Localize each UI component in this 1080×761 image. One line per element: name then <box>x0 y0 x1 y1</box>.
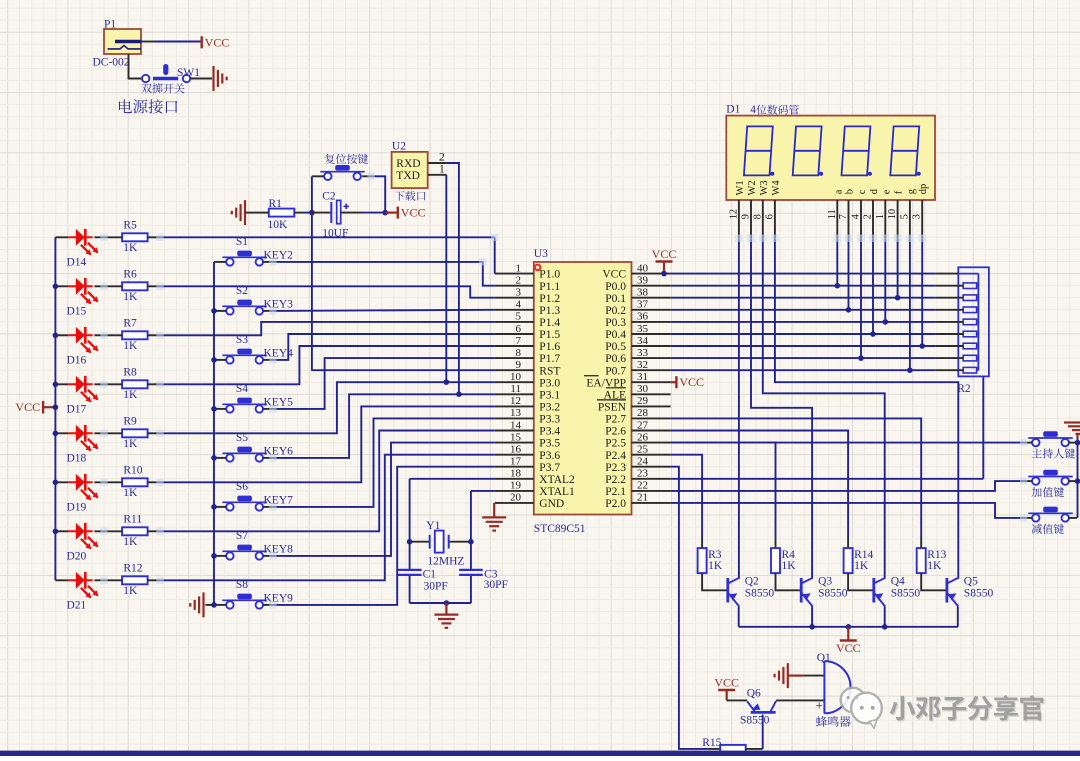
wire S7 net to pin15 <box>273 443 495 556</box>
ground (SW1) <box>214 66 227 91</box>
wire key right stub <box>263 506 273 508</box>
wire W3 to Q4 <box>763 238 885 579</box>
wire key left stub <box>214 408 226 410</box>
svg-text:P2.4: P2.4 <box>605 450 626 462</box>
svg-text:24: 24 <box>637 456 649 468</box>
svg-text:12MHZ: 12MHZ <box>427 555 464 567</box>
svg-text:P1.7: P1.7 <box>539 353 560 365</box>
junction <box>53 382 59 388</box>
junction <box>53 284 59 290</box>
svg-text:25: 25 <box>637 444 649 456</box>
junction <box>211 308 217 314</box>
svg-text:5: 5 <box>516 311 522 323</box>
svg-text:VCC: VCC <box>836 641 861 655</box>
svg-text:18: 18 <box>510 468 522 480</box>
wire stub <box>775 537 777 548</box>
wire VCC row to R2 <box>671 273 936 275</box>
push button S4 <box>222 403 266 405</box>
svg-text:b: b <box>845 189 856 194</box>
svg-text:P1.0: P1.0 <box>539 269 560 281</box>
wire key left stub <box>214 506 226 508</box>
digit 2 <box>793 126 822 175</box>
resistor R14 1K <box>844 548 853 573</box>
junction <box>846 624 852 630</box>
wire key left stub <box>214 457 226 459</box>
svg-text:R9: R9 <box>123 416 137 428</box>
junction <box>382 210 388 216</box>
pin 6 (P1.5) <box>495 333 534 335</box>
label 加值键 <box>1032 487 1064 497</box>
svg-text:33: 33 <box>637 347 649 359</box>
resistor R8 <box>122 380 148 388</box>
push button S2 <box>222 305 266 307</box>
pin 15 (P3.5) <box>495 442 534 444</box>
wire R4 feed from P2 <box>671 443 776 537</box>
pin 1 (U2) <box>428 174 447 176</box>
svg-text:1K: 1K <box>123 340 138 352</box>
LED D16 <box>55 334 68 336</box>
wire LED to R <box>94 236 122 238</box>
svg-text:W3: W3 <box>759 180 770 195</box>
svg-text:26: 26 <box>637 431 649 443</box>
wire W1 to Q2 <box>738 238 740 579</box>
wire D14 net to pin1 <box>160 236 495 238</box>
wire key left stub <box>214 359 226 361</box>
svg-text:40: 40 <box>637 262 649 274</box>
svg-text:1K: 1K <box>123 438 138 450</box>
svg-text:W4: W4 <box>771 180 782 196</box>
wire LED to R <box>94 432 122 434</box>
wire LED to R <box>94 579 122 581</box>
svg-text:S8550: S8550 <box>964 588 994 600</box>
push button S5 <box>222 452 266 454</box>
junction <box>53 529 59 535</box>
pin 12 (P3.2) <box>495 405 534 407</box>
wire stub <box>920 537 922 548</box>
svg-text:RST: RST <box>539 365 560 377</box>
resistor R13 1K <box>917 548 926 573</box>
wire right edge vertical <box>1077 438 1079 518</box>
push button S8 <box>222 599 266 601</box>
wire S2 net to pin4 <box>273 310 495 311</box>
ground (R1) <box>232 200 245 225</box>
svg-text:4: 4 <box>851 213 862 219</box>
resistor R2 element 3 <box>963 307 976 313</box>
svg-text:STC89C51: STC89C51 <box>534 523 586 535</box>
svg-text:D18: D18 <box>67 452 87 464</box>
capacitor C2 10UF <box>331 200 349 223</box>
LED D15 <box>55 285 68 287</box>
svg-text:1K: 1K <box>123 536 138 548</box>
wire LED to R <box>94 285 122 287</box>
wire key right stub <box>263 604 273 606</box>
label 双掷开关 <box>141 83 184 93</box>
power VCC (Q6) <box>718 689 735 691</box>
svg-text:1K: 1K <box>123 585 138 597</box>
svg-text:23: 23 <box>637 468 649 480</box>
wire base <box>921 573 946 590</box>
pin 5 (P1.4) <box>495 321 534 323</box>
label 电源接口 <box>119 99 177 113</box>
svg-text:38: 38 <box>637 287 649 299</box>
svg-text:P0.4: P0.4 <box>605 329 626 341</box>
junction <box>882 624 888 630</box>
wire P2.2 row <box>671 478 984 480</box>
wire D17 net to pin7 <box>160 346 495 384</box>
pin 14 (P3.4) <box>495 430 534 432</box>
svg-text:XTAL2: XTAL2 <box>539 474 575 486</box>
label 减值键 <box>1032 524 1064 534</box>
pin 21 (P2.0) <box>632 502 671 504</box>
svg-text:Q3: Q3 <box>818 576 832 588</box>
watermark wechat logo <box>841 688 882 728</box>
pin 39 (P0.0) <box>632 285 671 287</box>
wire LED to R <box>94 334 122 336</box>
svg-text:1: 1 <box>439 163 445 175</box>
wire segment dp <box>921 238 923 346</box>
IC U3 STC89C51 <box>534 262 632 515</box>
LED D21 <box>55 579 68 581</box>
wire key left stub <box>214 261 226 263</box>
power VCC (LED bus) <box>44 406 56 408</box>
svg-text:DC-002: DC-002 <box>93 57 130 69</box>
svg-text:P0.6: P0.6 <box>605 353 626 365</box>
connector P1 DC-002 <box>104 29 141 54</box>
svg-text:Q5: Q5 <box>964 576 978 588</box>
svg-text:P3.0: P3.0 <box>539 377 560 389</box>
svg-text:P1: P1 <box>104 19 116 31</box>
wire key bus to ground <box>205 604 214 606</box>
pin 1 (P1.0) <box>495 273 534 275</box>
ground (top right) <box>1064 423 1080 434</box>
pin 7 (P1.6) <box>495 345 534 347</box>
digit 3 <box>842 126 871 175</box>
svg-text:9: 9 <box>516 359 522 371</box>
resistor R2 element 2 <box>963 295 976 301</box>
svg-text:P1.6: P1.6 <box>539 341 560 353</box>
junction <box>53 333 59 339</box>
svg-text:10: 10 <box>510 371 522 383</box>
header U2 <box>392 152 428 188</box>
wire R2 to P2.2 vertical <box>982 376 984 478</box>
svg-text:W1: W1 <box>735 180 746 195</box>
label 4位数码管 <box>750 104 799 116</box>
svg-text:1K: 1K <box>123 389 138 401</box>
power VCC (P1) <box>200 36 202 48</box>
svg-text:S8550: S8550 <box>740 714 770 726</box>
svg-text:Q1: Q1 <box>817 652 831 664</box>
push button SP2 (加值键) <box>1028 476 1072 478</box>
svg-text:e: e <box>881 189 892 194</box>
push button SP3 (减值键) <box>1028 512 1072 514</box>
svg-text:1K: 1K <box>708 560 723 572</box>
resistor R7 <box>122 331 148 339</box>
svg-text:12: 12 <box>510 395 521 407</box>
svg-text:+: + <box>816 698 823 713</box>
resistor R5 <box>122 233 148 241</box>
junction <box>907 367 913 373</box>
svg-text:1K: 1K <box>123 487 138 499</box>
junction <box>444 600 450 606</box>
svg-text:8: 8 <box>516 347 522 359</box>
wire emitter bus <box>739 626 958 628</box>
pin 28 (P2.7) <box>632 417 671 419</box>
junction <box>211 357 217 363</box>
wire P2.1 row to key2 <box>671 481 1024 491</box>
svg-text:S8550: S8550 <box>745 588 775 600</box>
push button S3 <box>222 354 266 356</box>
ground (pin20 GND) <box>493 503 495 517</box>
svg-text:KEY2: KEY2 <box>264 250 294 262</box>
wire P0.3 row <box>671 321 936 323</box>
wire emitter <box>811 607 813 627</box>
capacitor C1 30PF <box>398 570 422 575</box>
junction <box>211 406 217 412</box>
resistor R2 element 7 <box>963 355 976 361</box>
svg-text:P3.4: P3.4 <box>539 426 560 438</box>
junction <box>444 379 450 385</box>
junction <box>846 307 852 313</box>
pin 24 (P2.3) <box>632 466 671 468</box>
svg-text:1K: 1K <box>123 242 138 254</box>
svg-text:3: 3 <box>516 287 522 299</box>
svg-text:1: 1 <box>875 214 886 219</box>
svg-text:37: 37 <box>637 299 649 311</box>
svg-text:15: 15 <box>510 431 522 443</box>
junction <box>211 553 217 559</box>
svg-text:S8550: S8550 <box>891 588 921 600</box>
wire S8 net to pin17 <box>273 467 495 605</box>
resistor network R2 <box>958 267 989 376</box>
wire P0.6 row <box>671 357 936 359</box>
junction <box>661 271 667 277</box>
svg-text:1K: 1K <box>123 291 138 303</box>
svg-text:13: 13 <box>510 407 522 419</box>
wire R14 feed from P2 <box>671 431 849 538</box>
svg-text:KEY8: KEY8 <box>264 544 294 556</box>
svg-text:P1.3: P1.3 <box>539 305 560 317</box>
transistor Q4 S8550 <box>872 578 875 603</box>
pin 38 (P0.1) <box>632 297 671 299</box>
svg-text:4: 4 <box>750 104 756 116</box>
svg-text:D14: D14 <box>67 256 87 268</box>
wire RST net to pin9 <box>312 369 495 371</box>
wire R stub <box>148 579 161 581</box>
svg-text:P0.7: P0.7 <box>605 365 626 377</box>
resistor R15 <box>707 748 720 750</box>
junction <box>211 455 217 461</box>
svg-text:34: 34 <box>637 335 649 347</box>
wire stub right <box>1068 517 1077 519</box>
wire XTAL2 rail <box>410 478 495 480</box>
wire XTAL1 rail <box>471 490 495 492</box>
resistor R12 <box>122 576 148 584</box>
svg-text:P3.7: P3.7 <box>539 462 560 474</box>
pin 26 (P2.5) <box>632 442 671 444</box>
svg-text:28: 28 <box>637 407 649 419</box>
pin 20 (GND) <box>495 502 534 504</box>
wire Q6 collector to buzzer <box>776 699 824 701</box>
wire S3 net to pin6 <box>273 334 495 360</box>
wire C1 column <box>409 542 411 570</box>
wire R stub <box>148 334 161 336</box>
resistor R2 element 6 <box>963 343 976 349</box>
wire key left stub <box>214 555 226 557</box>
junction <box>407 539 413 545</box>
wire LED to R <box>94 383 122 385</box>
wire SW1 to ground <box>190 78 212 80</box>
wire P0.7 row <box>671 369 936 371</box>
svg-text:P0.3: P0.3 <box>605 317 626 329</box>
wire stub <box>847 537 849 548</box>
wire D21 net to pin16 <box>160 455 495 581</box>
wire gnd to R1 <box>245 212 257 214</box>
pin 17 (P3.7) <box>495 466 534 468</box>
svg-text:30: 30 <box>637 383 649 395</box>
svg-text:D21: D21 <box>67 599 87 611</box>
svg-text:U3: U3 <box>534 248 548 260</box>
svg-text:D15: D15 <box>67 305 87 317</box>
svg-text:C2: C2 <box>322 191 336 203</box>
svg-text:22: 22 <box>637 480 648 492</box>
wire LED bus <box>54 237 56 580</box>
svg-text:P2.1: P2.1 <box>605 486 626 498</box>
LED D14 <box>55 236 68 238</box>
pin 36 (P0.3) <box>632 321 671 323</box>
wire S5 net to pin11 <box>273 394 495 458</box>
resistor R6 <box>122 282 148 290</box>
pin 25 (P2.4) <box>632 454 671 456</box>
pin 32 (P0.7) <box>632 369 671 371</box>
wire segment d <box>872 238 874 334</box>
svg-text:R6: R6 <box>123 269 137 281</box>
wire S6 net to pin13 <box>273 418 495 507</box>
wire P0.1 row <box>671 297 936 299</box>
svg-text:10: 10 <box>887 209 898 220</box>
svg-text:R15: R15 <box>702 737 721 749</box>
svg-text:c: c <box>857 189 868 194</box>
digit 4 <box>890 126 919 175</box>
svg-text:R7: R7 <box>123 318 137 330</box>
wire segment a <box>836 238 838 286</box>
wire key bus <box>213 262 215 605</box>
wire segment f <box>897 238 899 298</box>
label 蜂鸣器 <box>816 716 851 727</box>
wire P0.0 row <box>671 285 936 287</box>
svg-text:D16: D16 <box>67 354 87 366</box>
wire D18 net to pin10 <box>160 382 495 433</box>
svg-text:1K: 1K <box>854 560 869 572</box>
svg-text:P2.7: P2.7 <box>605 414 626 426</box>
junction <box>883 319 889 325</box>
LED D20 <box>55 530 68 532</box>
wire R stub <box>148 481 161 483</box>
svg-text:XTAL1: XTAL1 <box>539 486 575 498</box>
svg-text:dp: dp <box>918 184 929 195</box>
svg-text:35: 35 <box>637 323 649 335</box>
wire C3 column <box>470 542 472 570</box>
resistor R9 <box>122 429 148 437</box>
wire D19 net to pin12 <box>160 406 495 482</box>
svg-text:VCC: VCC <box>15 400 40 414</box>
wire R3 feed from P2 <box>671 455 703 537</box>
wire R stub <box>148 383 161 385</box>
svg-text:11: 11 <box>827 209 838 219</box>
svg-text:VCC: VCC <box>602 269 626 281</box>
push button SP1 (主持人键) <box>1028 437 1072 439</box>
wire D20 net to pin14 <box>160 431 495 532</box>
wire P0.2 row <box>671 309 936 311</box>
svg-text:D17: D17 <box>67 403 87 415</box>
svg-text:R8: R8 <box>123 367 137 379</box>
svg-text:f: f <box>894 190 905 194</box>
svg-text:KEY7: KEY7 <box>264 495 294 507</box>
wire stub left <box>1024 442 1033 444</box>
crystal Y1 12MHZ <box>410 531 471 553</box>
wire key right stub <box>263 555 273 557</box>
svg-text:R12: R12 <box>123 563 142 575</box>
ground (crystal) <box>445 603 447 615</box>
wire W2 to Q3 <box>751 238 812 579</box>
svg-text:6: 6 <box>516 323 522 335</box>
svg-text:1K: 1K <box>927 560 942 572</box>
capacitor C3 30PF <box>459 570 483 575</box>
wire R13 feed from P2 <box>671 418 922 537</box>
junction <box>1075 478 1080 484</box>
svg-text:2: 2 <box>439 152 445 164</box>
wire P2.0 row to key3 <box>671 503 1024 518</box>
pin 11 (P3.1) <box>495 393 534 395</box>
svg-text:TXD: TXD <box>396 170 420 182</box>
pin 16 (P3.6) <box>495 454 534 456</box>
digit 1 <box>744 126 773 175</box>
svg-text:R11: R11 <box>123 514 142 526</box>
watermark text <box>891 697 917 721</box>
junction <box>53 480 59 486</box>
svg-text:11: 11 <box>510 383 521 395</box>
svg-text:SW1: SW1 <box>177 67 200 79</box>
wire key left stub <box>214 604 226 606</box>
pin 29 (PSEN) <box>632 405 671 407</box>
pin 30 (ALE) <box>632 393 671 395</box>
svg-text:P2.3: P2.3 <box>605 462 626 474</box>
svg-text:KEY9: KEY9 <box>264 593 294 605</box>
label 复位按键 <box>325 154 368 164</box>
pin 8 (P1.7) <box>495 357 534 359</box>
svg-text:R2: R2 <box>957 383 971 395</box>
svg-text:P1.5: P1.5 <box>539 329 560 341</box>
svg-text:12: 12 <box>728 209 739 220</box>
push button S7 <box>222 550 266 552</box>
transistor Q2 S8550 <box>726 578 729 603</box>
pin 10 (P3.0) <box>495 381 534 383</box>
svg-text:31: 31 <box>637 371 648 383</box>
svg-text:P2.2: P2.2 <box>605 474 626 486</box>
svg-text:8: 8 <box>752 214 763 219</box>
pin 27 (P2.6) <box>632 430 671 432</box>
svg-text:P0.5: P0.5 <box>605 341 626 353</box>
transistor Q3 S8550 <box>800 578 803 603</box>
wire reset left <box>312 175 324 177</box>
buzzer Q1 <box>824 661 850 713</box>
wire emitter <box>738 607 740 627</box>
push button S9 (reset) <box>320 171 364 173</box>
ground (key bus) <box>190 592 203 617</box>
svg-text:Q2: Q2 <box>745 576 759 588</box>
svg-text:W2: W2 <box>747 180 758 195</box>
resistor R4 1K <box>771 548 780 573</box>
svg-text:VCC: VCC <box>714 676 739 690</box>
